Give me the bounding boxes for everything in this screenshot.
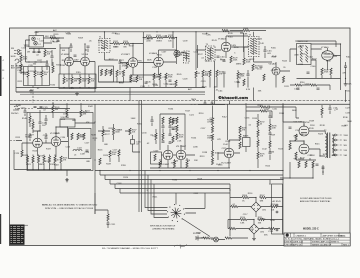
- tube V4 6AU6: [154, 57, 164, 67]
- resistor R115: [146, 36, 153, 38]
- resistor R173: [176, 117, 178, 124]
- resistor R187: [211, 150, 213, 157]
- wire: [95, 104, 283, 236]
- resistor R195: [257, 152, 259, 159]
- resistor R193: [257, 130, 259, 137]
- resistor R134: [243, 58, 245, 65]
- resistor R202: [295, 152, 297, 159]
- resistor R185: [211, 126, 213, 133]
- capacitor C118: [297, 88, 300, 89]
- resistor R205: [312, 161, 314, 168]
- wire: [16, 110, 95, 141]
- svg-text:220K: 220K: [193, 146, 198, 148]
- muting capacitor: [107, 223, 110, 224]
- resistor R107: [41, 71, 43, 78]
- svg-text:ARE ELECTRICALLY IDENTICAL: ARE ELECTRICALLY IDENTICAL: [300, 200, 331, 203]
- capacitor C106: [70, 46, 73, 47]
- capacitor C137: [151, 120, 154, 121]
- capacitor C128: [45, 119, 48, 120]
- wire: [143, 37, 176, 39]
- svg-text:222-C: 222-C: [340, 235, 346, 237]
- wire: [228, 104, 247, 140]
- svg-text:470K: 470K: [207, 122, 212, 124]
- resistor R132: [209, 70, 211, 77]
- wire: [69, 61, 254, 101]
- tube V6 6AU6: [272, 67, 280, 75]
- capacitor C124: [34, 107, 37, 108]
- front-end resistor box: [24, 67, 50, 86]
- wire: [145, 193, 210, 237]
- wire: [36, 32, 244, 43]
- junction: [70, 43, 71, 44]
- capacitor C138: [172, 128, 175, 129]
- capacitor C113: [260, 66, 263, 67]
- resistor R192: [257, 120, 259, 127]
- resistor R126: [153, 73, 155, 80]
- resistor R186: [211, 134, 213, 141]
- resistor R117: [168, 36, 175, 38]
- wire: [99, 75, 156, 82]
- fuse F1: [196, 236, 198, 241]
- wire: [95, 171, 283, 189]
- wire: [160, 114, 185, 150]
- chassis divider dashed bus lower: [10, 103, 350, 105]
- resistor R197: [269, 141, 271, 148]
- wire: [95, 210, 108, 228]
- svg-text:V11 12AX7: V11 12AX7: [176, 145, 187, 148]
- capacitor C129: [29, 136, 32, 137]
- resistor R203: [298, 161, 300, 168]
- resistor R119: [100, 69, 102, 76]
- ratio detector transformer T5: [297, 44, 312, 65]
- handwritten page mark: [174, 245, 187, 249]
- ground: [29, 89, 33, 93]
- wire: [94, 104, 96, 214]
- wire: [120, 32, 154, 75]
- scan-edge black streak lower left margin: [0, 214, 1, 244]
- resistor R127: [159, 73, 161, 80]
- capacitor C145: [289, 127, 292, 128]
- wire: [176, 38, 178, 65]
- svg-text:470K: 470K: [45, 161, 50, 163]
- svg-text:500K: 500K: [61, 119, 66, 121]
- resistor R120: [105, 69, 107, 76]
- wire (shielded): [10, 140, 16, 142]
- wire: [159, 50, 177, 75]
- wire: [238, 46, 265, 88]
- resistor R152: [29, 116, 31, 123]
- wire: [125, 131, 140, 152]
- resistor R184: [211, 118, 213, 125]
- svg-text:6.8K: 6.8K: [240, 223, 245, 225]
- resistor R177: [154, 154, 156, 161]
- AC interlock plug: [214, 237, 219, 242]
- wire: [98, 124, 114, 142]
- ground: [65, 178, 69, 182]
- capacitor C127: [24, 111, 27, 112]
- svg-text:DATE 4-58: DATE 4-58: [293, 240, 304, 243]
- FM front-end shield box: [29, 36, 44, 48]
- capacitor C141: [269, 116, 272, 117]
- resistor R191: [239, 142, 241, 149]
- svg-text:(VIEWED FROM REAR): (VIEWED FROM REAR): [153, 228, 175, 231]
- capacitor C132: [162, 126, 165, 127]
- svg-text:V10 12AX7: V10 12AX7: [159, 163, 170, 166]
- resistor R208: [231, 205, 238, 207]
- resistor R129: [230, 56, 232, 63]
- scan-edge black streak upper left margin: [0, 56, 2, 96]
- capacitor C112: [223, 72, 226, 73]
- wire: [37, 103, 81, 118]
- output tube V14 7189: [299, 144, 309, 154]
- preamp section enclosure box: [27, 113, 93, 171]
- svg-text:100K: 100K: [19, 65, 24, 67]
- ground: [344, 82, 348, 86]
- tube V12 12AX7: [224, 148, 234, 158]
- resistor R140: [243, 29, 250, 31]
- junction: [312, 177, 313, 178]
- capacitor C122: [169, 80, 172, 81]
- resistor R179: [172, 118, 174, 125]
- tuner sub-chassis line: [16, 91, 205, 93]
- resistor R209: [271, 205, 278, 207]
- svg-text:6AU6: 6AU6: [181, 51, 187, 54]
- svg-text:CΩ: CΩ: [344, 150, 347, 152]
- capacitor C140: [211, 103, 214, 104]
- tube V7 6AL5: [322, 51, 334, 61]
- volume control VR1: [60, 119, 75, 127]
- resistor R122: [116, 70, 118, 77]
- speaker tap terminal G: [334, 154, 336, 156]
- wire: [345, 90, 347, 102]
- svg-text:220K: 220K: [146, 41, 151, 43]
- resistor R157: [37, 156, 39, 163]
- wire: [229, 112, 270, 168]
- resistor R159: [48, 156, 50, 163]
- resistor R106: [34, 71, 36, 78]
- tuner chassis bottom edge second line: [20, 93, 205, 95]
- resistor R123: [122, 70, 124, 77]
- resistor R153: [32, 122, 34, 129]
- svg-text:470K: 470K: [168, 77, 173, 79]
- svg-text:1MEG: 1MEG: [236, 63, 242, 65]
- svg-text:WITH VTVM — LINE VOLTAGE 117V: WITH VTVM — LINE VOLTAGE 117V AC 60 CYCL…: [45, 207, 94, 210]
- svg-text:CHASSIS 1: CHASSIS 1: [296, 234, 307, 237]
- tube V5 6AU6: [221, 42, 231, 52]
- speaker tap terminal 8: [334, 139, 336, 141]
- resistor R118: [175, 51, 177, 58]
- resistor R104: [52, 66, 54, 73]
- capacitor C143: [269, 152, 272, 153]
- wire: [71, 44, 88, 52]
- wire: [290, 122, 325, 156]
- junction dots along buses: [63, 87, 64, 88]
- resistor R146: [50, 37, 57, 39]
- svg-text:STEREO AMP 222-C: STEREO AMP 222-C: [312, 240, 332, 243]
- capacitor C136: [169, 142, 172, 143]
- resistor R128: [165, 73, 167, 80]
- resistor R155: [26, 156, 28, 163]
- selenium rectifier CR1: [251, 202, 261, 212]
- svg-text:SERIES 100 AND UP: SERIES 100 AND UP: [312, 244, 332, 247]
- wire: [47, 60, 53, 70]
- svg-text:PHONO: PHONO: [11, 113, 19, 115]
- wire: [64, 74, 89, 77]
- speaker selector switch SW1: [175, 212, 177, 214]
- svg-text:470K: 470K: [294, 55, 299, 57]
- speaker tap terminal 4: [334, 144, 336, 146]
- inductor L3: [73, 150, 82, 152]
- resistor R204: [305, 161, 307, 168]
- resistor R135: [252, 64, 254, 71]
- capacitor C139: [204, 103, 207, 104]
- capacitor C125: [40, 107, 43, 108]
- resistor R188: [211, 158, 213, 165]
- resistor R121: [110, 69, 112, 76]
- resistor R194: [257, 140, 259, 147]
- wire: [296, 107, 299, 118]
- wire: [100, 171, 120, 194]
- tuning gang dashed link: [32, 86, 34, 103]
- resistor R165: [102, 130, 104, 137]
- wire: [228, 220, 230, 229]
- svg-text:FM: FM: [11, 48, 14, 50]
- resistor R196: [269, 124, 271, 131]
- wire: [296, 158, 316, 160]
- svg-text:220K: 220K: [23, 59, 28, 61]
- wire: [145, 171, 154, 208]
- wire: [230, 30, 266, 32]
- output tube V13 7189: [299, 126, 309, 136]
- svg-text:220K: 220K: [118, 130, 123, 132]
- svg-text:SHEET 1: SHEET 1: [331, 241, 340, 243]
- wire: [152, 116, 156, 144]
- capacitor C131: [86, 150, 89, 151]
- AC terminal strip: [272, 184, 283, 234]
- svg-text:TAPE: TAPE: [191, 98, 197, 101]
- tube V3 12AT7: [128, 58, 138, 68]
- svg-text:T5 RATIO DET: T5 RATIO DET: [295, 40, 309, 43]
- tube V11 12AX7: [176, 150, 186, 160]
- svg-text:H. H. SCOTT INC. MAYNARD, MAS: H. H. SCOTT INC. MAYNARD, MASS. SCHEM 22…: [285, 238, 340, 241]
- resistor R158: [43, 156, 45, 163]
- wire: [16, 80, 205, 88]
- wire: [16, 91, 95, 93]
- resistor R124: [130, 76, 132, 83]
- resistor R130: [195, 71, 197, 78]
- svg-text:SOCKET AND SELECTOR PLUGS: SOCKET AND SELECTOR PLUGS: [300, 197, 332, 200]
- resistor R139: [243, 79, 245, 86]
- chassis divider dashed bus upper: [10, 100, 350, 102]
- resistor R164: [83, 133, 85, 140]
- svg-text:MODEL 222-C: MODEL 222-C: [303, 227, 319, 230]
- capacitor C105: [46, 64, 49, 65]
- wire: [110, 157, 119, 163]
- resistor R156: [32, 156, 34, 163]
- speaker tap terminal C: [334, 149, 336, 151]
- svg-text:CHK WH: CHK WH: [285, 245, 294, 247]
- wire: [280, 162, 323, 178]
- resistor R142: [321, 68, 323, 75]
- resistor R178: [155, 133, 157, 140]
- svg-text:6.8K: 6.8K: [272, 128, 277, 130]
- svg-text:1MEG: 1MEG: [207, 138, 213, 140]
- wire: [60, 44, 95, 92]
- resistor R212: [229, 227, 236, 229]
- resistor R109: [71, 77, 73, 84]
- capacitor C130: [45, 137, 48, 138]
- capacitor C135: [162, 141, 165, 142]
- capacitor C115: [264, 50, 267, 51]
- junction: [322, 171, 323, 172]
- IF decoupling box: [99, 66, 114, 82]
- svg-text:6.8K: 6.8K: [215, 152, 220, 154]
- svg-text:220K: 220K: [293, 135, 298, 137]
- junction: [34, 61, 35, 62]
- wire: [173, 32, 248, 70]
- capacitor C101: [33, 52, 36, 53]
- svg-text:FIG. 7 SCHEMATIC DIAGRAM — MO: FIG. 7 SCHEMATIC DIAGRAM — MODEL 222-C H…: [102, 247, 158, 250]
- wire: [218, 140, 240, 168]
- svg-text:220K: 220K: [347, 84, 352, 86]
- resistor R131: [202, 70, 204, 77]
- resistor R160: [54, 156, 56, 163]
- capacitor C144: [268, 106, 269, 109]
- capacitor C142: [269, 133, 272, 134]
- resistor R133: [216, 70, 218, 77]
- resistor R199: [260, 110, 267, 112]
- svg-text:295V: 295V: [310, 125, 315, 127]
- resistor R168: [109, 151, 111, 158]
- resistor R182: [173, 161, 175, 168]
- wire: [20, 52, 22, 74]
- resistor R138: [237, 72, 239, 79]
- svg-text:560K: 560K: [131, 118, 136, 120]
- wire: [230, 198, 283, 218]
- wire: [22, 127, 68, 156]
- oscillator coils L1 L2: [32, 37, 35, 40]
- resistor R143: [330, 68, 332, 75]
- resistor R167: [129, 128, 131, 135]
- resistor R105: [27, 71, 29, 78]
- svg-text:6.3V: 6.3V: [246, 89, 251, 91]
- resistor R113: [123, 42, 130, 44]
- resistor R111: [88, 77, 90, 84]
- shielded pair to selector: [139, 100, 142, 212]
- resistor R110: [79, 77, 81, 84]
- wire: [66, 170, 68, 181]
- svg-text:NOTE: ALL VOLTAGES MEASURED TO: NOTE: ALL VOLTAGES MEASURED TO CHASSIS G…: [42, 204, 98, 207]
- svg-text:560K: 560K: [147, 60, 152, 62]
- resistor R163: [77, 133, 79, 140]
- tube V8 12AX7: [33, 138, 43, 148]
- svg-text:6.8K: 6.8K: [98, 41, 103, 43]
- svg-text:470K: 470K: [324, 72, 329, 74]
- wire: [105, 32, 121, 70]
- junction: [85, 49, 86, 50]
- wire: [29, 48, 56, 66]
- ground: [252, 237, 256, 241]
- muting resistor: [107, 214, 109, 221]
- resistor R136: [263, 74, 265, 81]
- wire: [240, 33, 336, 52]
- resistor R145: [310, 84, 317, 86]
- wire: [322, 105, 330, 118]
- resistor R200: [289, 143, 291, 150]
- resistor R215: [225, 237, 232, 239]
- wire: [28, 67, 42, 86]
- wire: [290, 85, 330, 90]
- capacitor C121: [145, 82, 148, 83]
- svg-text:GΩ: GΩ: [344, 155, 348, 157]
- resistor R137: [282, 76, 284, 83]
- resistor R176: [176, 133, 178, 140]
- resistor R147: [175, 80, 177, 87]
- resistor R148: [321, 108, 323, 115]
- resistor R170: [99, 158, 101, 165]
- wire: [196, 74, 224, 88]
- resistor R125: [136, 76, 138, 83]
- wire: [228, 220, 283, 237]
- svg-text:100K: 100K: [246, 62, 251, 64]
- tube V2 6U8: [81, 57, 90, 66]
- resistor R166: [112, 128, 114, 135]
- capacitor C126: [39, 122, 42, 123]
- selenium rectifier CR2: [249, 224, 259, 234]
- coupling capacitor: [131, 140, 135, 145]
- tube V10 12AX7: [163, 150, 173, 160]
- junction: [40, 61, 41, 62]
- capacitor C108: [119, 62, 122, 63]
- speaker tap terminal 16: [334, 134, 336, 136]
- svg-text:1MEG: 1MEG: [156, 41, 162, 43]
- wire: [30, 133, 46, 143]
- wire: [244, 32, 272, 62]
- capacitor C116: [344, 66, 347, 67]
- resistor R171: [162, 117, 164, 124]
- svg-text:2.2K: 2.2K: [177, 140, 182, 142]
- svg-text:560K: 560K: [115, 132, 120, 134]
- svg-text:470K: 470K: [122, 66, 127, 68]
- resistor R162: [71, 133, 73, 140]
- svg-text:V12 12AX7: V12 12AX7: [221, 162, 232, 165]
- EQ network box: [69, 129, 92, 159]
- capacitor C133: [169, 126, 172, 127]
- tube V9 12AX7: [51, 137, 61, 147]
- resistor R214: [203, 237, 210, 239]
- FM antenna terminals: [18, 50, 20, 52]
- capacitor C107: [87, 46, 90, 47]
- resistor R201: [295, 134, 297, 141]
- resistor R211: [258, 218, 265, 220]
- resistor R181: [159, 161, 161, 168]
- resistor R151: [80, 110, 82, 117]
- svg-text:AVC: AVC: [188, 88, 193, 91]
- wire: [14, 150, 91, 170]
- svg-text:AVC: AVC: [53, 29, 58, 32]
- capacitor C114: [247, 74, 250, 75]
- wire (shielded): [191, 104, 197, 106]
- capacitor C102: [38, 52, 41, 53]
- svg-text:470K: 470K: [270, 220, 275, 222]
- svg-text:V1 6BS8: V1 6BS8: [61, 54, 70, 56]
- resistor R198: [260, 106, 267, 108]
- capacitor C120: [57, 41, 60, 42]
- resistor R175: [162, 133, 164, 140]
- IF transformer T4: [249, 37, 260, 57]
- svg-text:6.8K: 6.8K: [112, 154, 117, 156]
- wire: [276, 62, 290, 88]
